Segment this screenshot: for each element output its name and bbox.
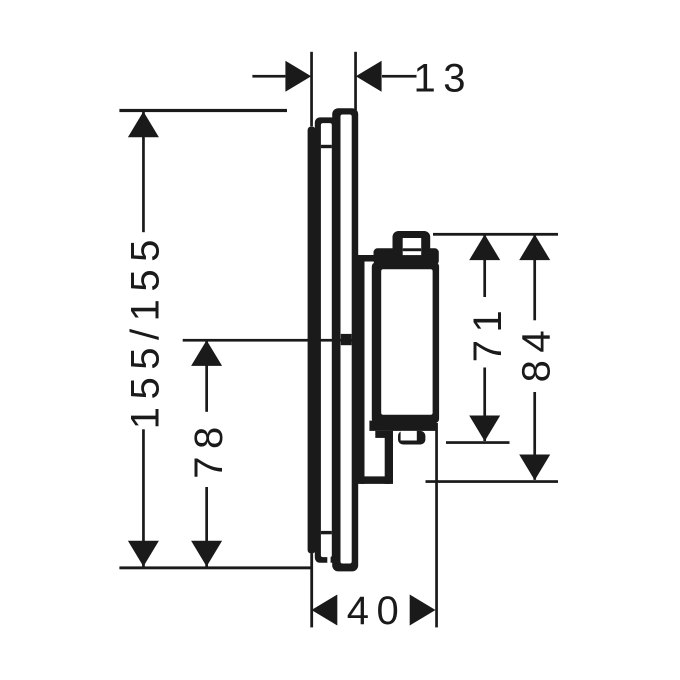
dim 78 line lower segment: [205, 487, 208, 567]
dim 78 line upper segment: [205, 341, 208, 412]
wire: dim-13 right extension line x=355.5: [354, 52, 357, 111]
dim 71 top arrow: [469, 234, 500, 260]
wire: dim-84 bottom extension line y=481.5: [426, 480, 559, 483]
dim 13 left leader line: [252, 75, 285, 78]
dim 71 line upper segment: [483, 235, 486, 297]
dim 13 right arrow: [356, 61, 382, 92]
neck top connector: [357, 255, 374, 262]
dim 40 left arrow: [312, 595, 338, 626]
dim 84 bottom arrow: [519, 455, 550, 481]
dim 84 top arrow: [519, 234, 550, 260]
dim 84 line upper segment: [533, 235, 536, 320]
wire: dim-40 right extension line x=436.5: [435, 423, 438, 627]
neck vertical bar: [358, 262, 365, 484]
cartridge body: [372, 263, 439, 424]
svg-text:13: 13: [414, 57, 474, 101]
flange edge line through nub hole: [403, 248, 422, 251]
wire: right top extension line y=233: [433, 233, 558, 236]
dim 71 bottom arrow: [469, 416, 500, 442]
dim 155/155 bottom arrow: [128, 541, 159, 567]
dim 155/155 line upper segment: [142, 112, 145, 232]
nub interior hole: [403, 238, 422, 255]
dim 40 right arrow: [410, 595, 436, 626]
wire: dim-78 extension line y=340: [183, 339, 356, 342]
wire: dim-13 left extension line x=311.5: [310, 52, 313, 127]
wire: top-left extension line y=111: [119, 109, 287, 112]
node: gap between sleeve cap and plate cap: [327, 557, 330, 564]
dim 155/155 top arrow: [128, 112, 159, 138]
node: lever pivot mark inside plate: [341, 334, 352, 345]
dim 155/155 line lower segment: [142, 429, 145, 567]
sleeve top crossbar: [321, 145, 332, 148]
elbow right wall: [375, 431, 393, 438]
svg-text:155/155: 155/155: [123, 232, 167, 429]
wire: dim-71 bottom extension line y=442.5: [446, 441, 510, 444]
cartridge top flange: [374, 248, 439, 265]
wire: bottom-left extension line y=567: [119, 566, 312, 569]
svg-text:40: 40: [347, 589, 407, 633]
plate sleeve outline (layer B): [315, 117, 337, 562]
svg-text:71: 71: [466, 303, 510, 363]
dim 13 right leader line: [382, 75, 417, 78]
plate front outline (layer C): [332, 108, 358, 571]
dim 71 line lower segment: [483, 368, 486, 442]
svg-text:84: 84: [514, 323, 558, 383]
elbow bottom cap: [358, 476, 393, 484]
dim 78 top arrow: [191, 340, 222, 366]
cartridge bottom nub: [398, 431, 425, 445]
cartridge top nub: [393, 231, 431, 254]
dim 78 bottom arrow: [191, 541, 222, 567]
svg-text:78: 78: [187, 419, 231, 479]
dim 13 left arrow: [285, 61, 311, 92]
wire: dim-40 left extension line x=311: [310, 554, 313, 628]
plate wall bar (layer A): [308, 127, 316, 554]
dim 84 line lower segment: [533, 392, 536, 480]
cartridge bottom flange: [369, 421, 436, 431]
sleeve bottom crossbar: [321, 531, 332, 534]
